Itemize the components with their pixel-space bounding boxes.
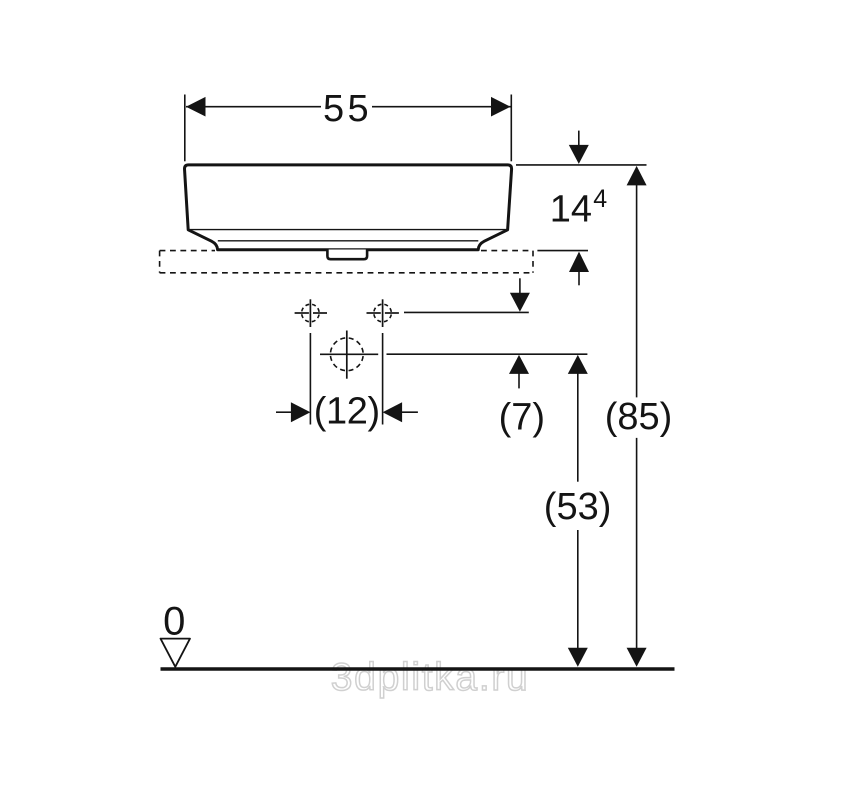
svg-text:(12): (12)	[314, 391, 380, 433]
dimension 14-4 top arrow shaft	[578, 131, 580, 148]
dimension 55 right extension line	[510, 95, 512, 162]
dimension 85 lower shaft	[636, 438, 638, 650]
dimension 53 lower shaft	[577, 530, 579, 650]
dimension 55 left extension line	[184, 95, 186, 162]
faucet hole left cross vertical	[309, 299, 311, 327]
dimension 12 right arrowhead	[383, 402, 403, 422]
dimension 12 left extension line	[309, 333, 311, 425]
faucet hole reference line	[404, 311, 529, 313]
datum triangle	[161, 639, 191, 667]
basin rim reference line	[516, 164, 647, 166]
faucet hole left cross horizontal	[295, 312, 309, 314]
faucet hole right cross horizontal	[367, 312, 381, 314]
svg-text:4: 4	[593, 185, 607, 213]
dimension 55 line left segment	[186, 106, 321, 108]
drain cross vertical	[346, 331, 348, 379]
drain cross horizontal	[320, 353, 378, 355]
faucet hole left dashed circle	[302, 304, 320, 322]
arrow down to faucet line shaft	[519, 278, 521, 296]
dimension 12 right extension line	[382, 333, 384, 425]
dimension 85 upper shaft	[636, 182, 638, 397]
dimension 55 left arrowhead	[186, 97, 206, 117]
dimension 55 line right segment	[372, 106, 511, 108]
washbasin outline	[185, 165, 512, 250]
washbasin bowl underside line	[218, 240, 479, 242]
dimension 14-4 top arrowhead	[569, 145, 589, 164]
svg-text:3dplitka.ru: 3dplitka.ru	[331, 656, 530, 699]
dimension 55 right arrowhead	[491, 97, 511, 117]
dimension 53 bottom arrowhead	[568, 648, 588, 667]
countertop reference line	[537, 250, 588, 252]
svg-text:(7): (7)	[499, 397, 545, 439]
dimension 85 bottom arrowhead	[627, 648, 647, 667]
countertop dashed outline	[160, 251, 533, 273]
svg-text:14: 14	[550, 189, 592, 231]
dimension 12 left arrow shaft	[276, 411, 292, 413]
dimension 53 top arrowhead	[568, 355, 588, 374]
drain notch	[327, 250, 367, 260]
dimension 7 arrow shaft	[518, 370, 520, 388]
arrow down to faucet line head	[510, 293, 530, 312]
drain reference line	[387, 353, 588, 355]
dimension 14-4 bottom arrowhead	[569, 252, 589, 272]
dimension 53 upper shaft	[577, 370, 579, 482]
dimension 7 arrowhead	[509, 355, 529, 374]
dimension 12 right arrow shaft	[401, 411, 418, 413]
washbasin inner rim line	[188, 229, 507, 231]
dimension 85 top arrowhead	[627, 166, 647, 186]
svg-text:0: 0	[163, 600, 185, 644]
svg-text:(85): (85)	[605, 396, 673, 438]
dimension 12 left arrowhead	[291, 402, 311, 422]
drain outlet dashed circle	[330, 338, 363, 371]
faucet hole right cross vertical	[382, 299, 384, 327]
floor line	[161, 667, 675, 670]
svg-text:(53): (53)	[544, 486, 612, 528]
dimension 14-4 bottom arrow shaft	[578, 269, 580, 285]
svg-text:55: 55	[323, 88, 372, 130]
faucet hole right dashed circle	[374, 304, 392, 322]
